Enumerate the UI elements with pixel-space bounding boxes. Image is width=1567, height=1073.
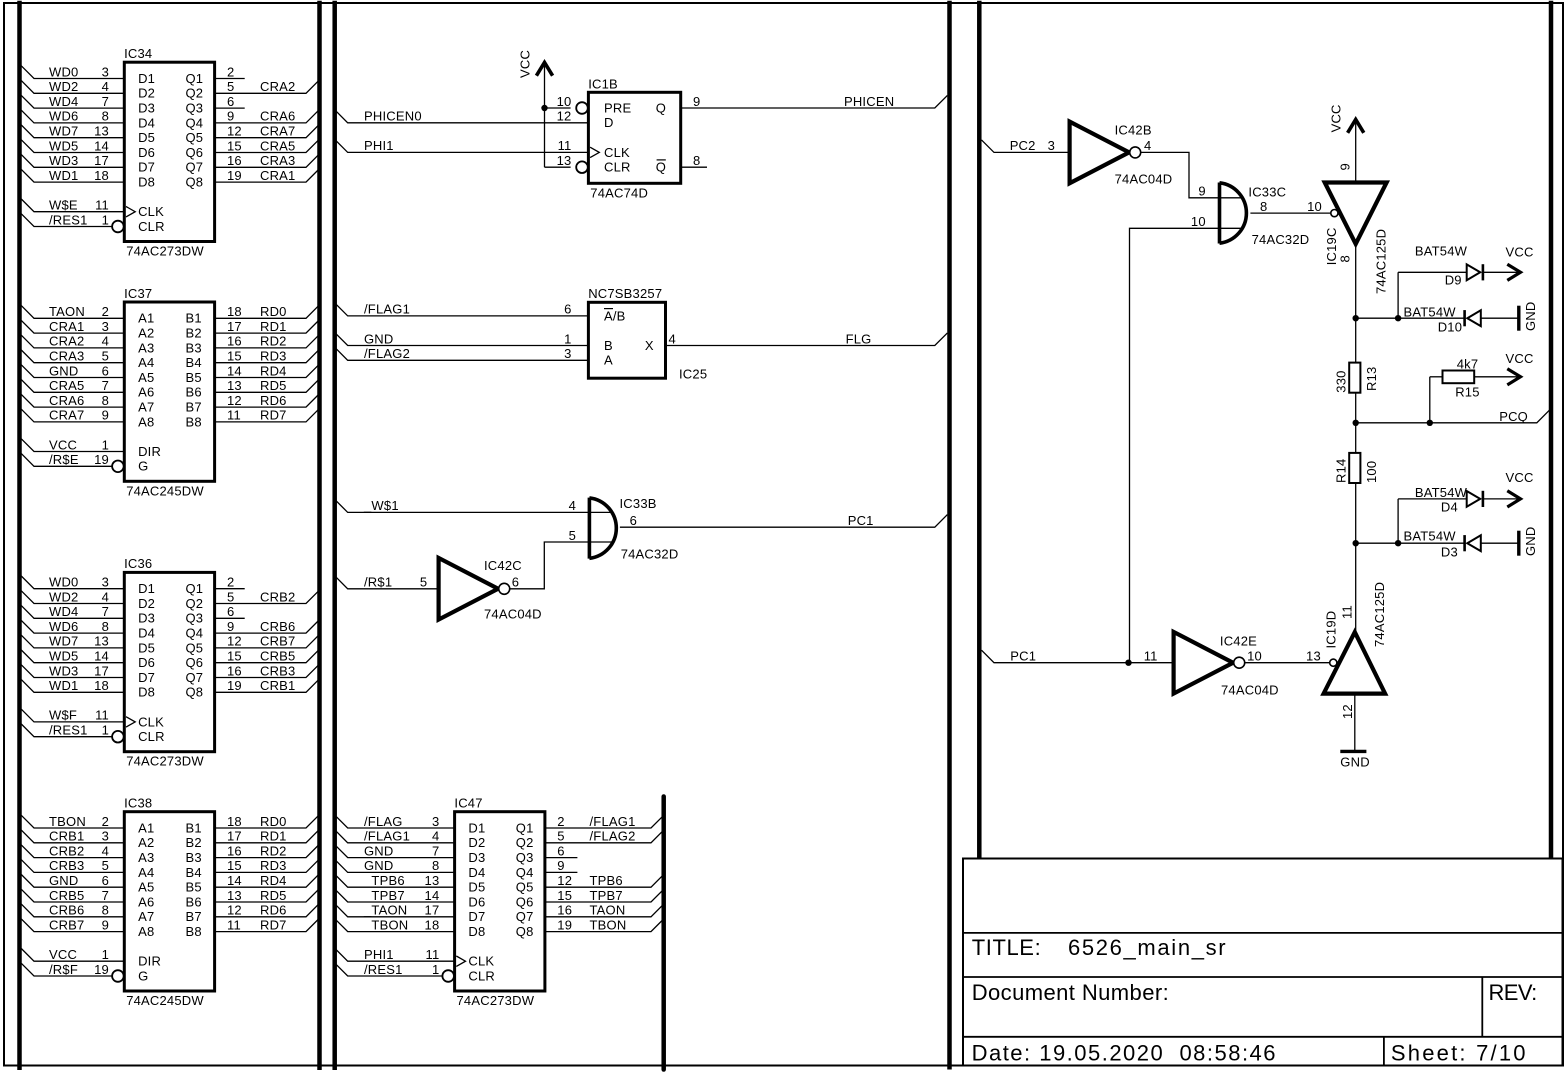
wire R13 to _PCQ node bbox=[1355, 393, 1357, 453]
svg-text:A3: A3 bbox=[138, 850, 154, 865]
wire IC34 pin 19 to CRA1 bbox=[215, 170, 319, 183]
wire IC37 pin 18 to RD0 bbox=[215, 306, 319, 319]
svg-text:VCC: VCC bbox=[49, 947, 77, 962]
svg-text:16: 16 bbox=[227, 153, 242, 168]
svg-text:11: 11 bbox=[1144, 649, 1158, 664]
svg-text:4: 4 bbox=[1144, 138, 1151, 153]
inversion bubble G (IC38) bbox=[112, 970, 124, 982]
svg-text:WD6: WD6 bbox=[49, 619, 79, 634]
svg-text:B8: B8 bbox=[186, 414, 202, 429]
svg-text:D4: D4 bbox=[138, 626, 155, 641]
svg-text:/RES1: /RES1 bbox=[364, 962, 403, 977]
svg-text:7: 7 bbox=[102, 604, 109, 619]
svg-text:B4: B4 bbox=[186, 355, 202, 370]
resistor R14 body bbox=[1349, 453, 1360, 483]
svg-text:17: 17 bbox=[94, 663, 109, 678]
svg-text:Q3: Q3 bbox=[516, 850, 534, 865]
junction IC19C/D10 node bbox=[1353, 315, 1359, 321]
svg-text:CRA5: CRA5 bbox=[49, 378, 84, 393]
svg-text:CRB5: CRB5 bbox=[260, 649, 295, 664]
stub IC34 pin 6 (n.c.) bbox=[215, 107, 245, 109]
svg-text:4k7: 4k7 bbox=[1457, 356, 1479, 371]
inversion bubble enable (IC19C) bbox=[1331, 210, 1338, 217]
svg-text:B7: B7 bbox=[186, 909, 202, 924]
svg-text:W$E: W$E bbox=[49, 198, 78, 213]
junction D4 branch bbox=[1395, 540, 1401, 546]
wire IC38 pin 15 to RD3 bbox=[215, 860, 319, 873]
svg-text:6: 6 bbox=[102, 363, 109, 378]
svg-text:B7: B7 bbox=[186, 400, 202, 415]
wire TBON to IC38 pin 2 bbox=[21, 815, 124, 828]
svg-text:14: 14 bbox=[94, 138, 109, 153]
svg-text:18: 18 bbox=[94, 678, 109, 693]
wire CRB3 to IC38 pin 5 bbox=[21, 860, 124, 873]
svg-text:D3: D3 bbox=[138, 101, 155, 116]
wire IC38 pin 17 to RD1 bbox=[215, 830, 319, 843]
wire IC38 pin 13 to RD5 bbox=[215, 889, 319, 902]
svg-text:B1: B1 bbox=[186, 311, 202, 326]
or-gate IC33B body (74AC32D) bbox=[589, 498, 616, 559]
wire IC36 pin 5 to CRB2 bbox=[215, 591, 319, 604]
svg-text:15: 15 bbox=[227, 349, 242, 364]
svg-text:8: 8 bbox=[102, 903, 109, 918]
svg-text:5: 5 bbox=[102, 858, 109, 873]
svg-text:PC2: PC2 bbox=[1010, 138, 1036, 153]
svg-text:8: 8 bbox=[693, 153, 700, 168]
svg-text:GND: GND bbox=[1523, 527, 1538, 557]
svg-text:NC7SB3257: NC7SB3257 bbox=[588, 286, 662, 301]
svg-text:11: 11 bbox=[95, 708, 109, 723]
svg-text:9: 9 bbox=[1198, 184, 1205, 199]
clock wedge (IC47) bbox=[456, 956, 465, 966]
svg-text:IC33B: IC33B bbox=[620, 496, 657, 511]
svg-text:B1: B1 bbox=[186, 820, 202, 835]
svg-text:Sheet: 7/10: Sheet: 7/10 bbox=[1391, 1041, 1528, 1066]
svg-text:Q2: Q2 bbox=[186, 596, 204, 611]
svg-text:Q2: Q2 bbox=[186, 86, 204, 101]
svg-text:6: 6 bbox=[564, 302, 571, 317]
svg-text:3: 3 bbox=[102, 575, 109, 590]
svg-text:74AC04D: 74AC04D bbox=[1221, 683, 1279, 698]
wire branch up to D4 bbox=[1397, 499, 1399, 543]
svg-text:D7: D7 bbox=[468, 909, 485, 924]
svg-text:IC1B: IC1B bbox=[588, 76, 618, 91]
svg-text:8: 8 bbox=[102, 619, 109, 634]
svg-text:4: 4 bbox=[102, 843, 109, 858]
svg-text:100: 100 bbox=[1364, 461, 1379, 483]
svg-text:IC34: IC34 bbox=[124, 46, 152, 61]
svg-text:11: 11 bbox=[425, 947, 439, 962]
svg-text:74AC74D: 74AC74D bbox=[590, 185, 648, 200]
svg-text:D8: D8 bbox=[468, 924, 485, 939]
svg-text:3: 3 bbox=[1048, 138, 1055, 153]
svg-text:8: 8 bbox=[432, 858, 439, 873]
wire branch up to D9 bbox=[1397, 272, 1399, 318]
svg-text:WD2: WD2 bbox=[49, 79, 79, 94]
inverter IC42C body (74AC04D) bbox=[439, 558, 499, 620]
wire WD2 to IC36 pin 4 bbox=[21, 591, 124, 604]
svg-text:17: 17 bbox=[425, 903, 440, 918]
clock wedge (IC34) bbox=[126, 207, 135, 217]
svg-text:D2: D2 bbox=[468, 835, 485, 850]
wire CRB7 to IC38 pin 9 bbox=[21, 919, 124, 932]
svg-text:WD5: WD5 bbox=[49, 138, 79, 153]
svg-text:_PCQ: _PCQ bbox=[1491, 409, 1528, 424]
bus CRA/RD/CRB outputs (left-mid vertical bus) bbox=[317, 1, 322, 1070]
svg-text:G: G bbox=[138, 459, 148, 474]
svg-text:B4: B4 bbox=[186, 865, 202, 880]
svg-text:74AC32D: 74AC32D bbox=[1252, 232, 1310, 247]
IC IC34 74AC273DW body bbox=[124, 62, 214, 241]
svg-text:X: X bbox=[645, 338, 654, 353]
svg-text:Q2: Q2 bbox=[516, 835, 534, 850]
svg-text:6: 6 bbox=[630, 513, 637, 528]
svg-text:4: 4 bbox=[102, 79, 109, 94]
wire W$F to IC36 pin 11 (CLK) bbox=[21, 709, 124, 722]
svg-text:RD7: RD7 bbox=[260, 408, 287, 423]
svg-text:B2: B2 bbox=[186, 835, 202, 850]
svg-text:74AC245DW: 74AC245DW bbox=[126, 993, 204, 1008]
svg-text:15: 15 bbox=[227, 138, 242, 153]
svg-text:11: 11 bbox=[227, 917, 241, 932]
svg-text:2: 2 bbox=[227, 575, 234, 590]
wire CRB1 to IC38 pin 3 bbox=[21, 830, 124, 843]
VCC power symbol arrow (R15) bbox=[1507, 369, 1520, 385]
inversion bubble CLR (IC34) bbox=[112, 221, 124, 233]
wire IC37 pin 14 to RD4 bbox=[215, 365, 319, 378]
svg-text:17: 17 bbox=[227, 319, 242, 334]
svg-text:12: 12 bbox=[227, 634, 242, 649]
wire CRB5 to IC38 pin 7 bbox=[21, 889, 124, 902]
svg-text:RD3: RD3 bbox=[260, 858, 287, 873]
svg-text:13: 13 bbox=[227, 888, 242, 903]
wire CRA2 to IC37 pin 4 bbox=[21, 335, 124, 348]
wire /RES1 to IC36 pin 1 (CLR) bbox=[21, 724, 112, 737]
svg-text:Q1: Q1 bbox=[186, 71, 204, 86]
svg-text:CLK: CLK bbox=[604, 145, 630, 160]
svg-text:9: 9 bbox=[227, 109, 234, 124]
svg-text:B3: B3 bbox=[186, 340, 202, 355]
svg-text:GND: GND bbox=[1523, 302, 1538, 332]
bus IC47 outputs (short vertical bus) bbox=[661, 797, 666, 1070]
svg-text:VCC: VCC bbox=[1506, 351, 1534, 366]
svg-text:Q1: Q1 bbox=[186, 581, 204, 596]
svg-text:WD1: WD1 bbox=[49, 678, 79, 693]
svg-text:IC42C: IC42C bbox=[484, 558, 522, 573]
svg-text:5: 5 bbox=[420, 575, 427, 590]
svg-text:15: 15 bbox=[227, 649, 242, 664]
svg-text:CLK: CLK bbox=[468, 954, 494, 969]
wire IC47 pin 5 to /FLAG2 bbox=[545, 830, 664, 843]
svg-text:6: 6 bbox=[227, 604, 234, 619]
bus right edge (vertical bus) bbox=[1549, 1, 1554, 859]
wire IC36 pin 15 to CRB5 bbox=[215, 650, 319, 663]
wire WD0 to IC34 pin 3 bbox=[21, 66, 124, 79]
svg-text:CRA7: CRA7 bbox=[260, 124, 295, 139]
svg-text:8: 8 bbox=[1260, 199, 1267, 214]
wire IC37 pin 13 to RD5 bbox=[215, 380, 319, 393]
wire CRB6 to IC38 pin 8 bbox=[21, 904, 124, 917]
wire WD7 to IC34 pin 13 bbox=[21, 125, 124, 138]
svg-text:5: 5 bbox=[102, 349, 109, 364]
svg-text:3: 3 bbox=[102, 829, 109, 844]
svg-text:Q7: Q7 bbox=[186, 160, 204, 175]
svg-text:BAT54W: BAT54W bbox=[1415, 244, 1468, 259]
svg-text:14: 14 bbox=[94, 649, 109, 664]
svg-text:74AC04D: 74AC04D bbox=[1115, 172, 1173, 187]
svg-text:WD5: WD5 bbox=[49, 649, 79, 664]
svg-text:IC38: IC38 bbox=[124, 796, 152, 811]
wire CRA3 to IC37 pin 5 bbox=[21, 350, 124, 363]
clock wedge (IC1B) bbox=[590, 147, 599, 157]
svg-text:A7: A7 bbox=[138, 400, 154, 415]
wire IC47 pin 12 to TPB6 bbox=[545, 875, 664, 888]
svg-text:10: 10 bbox=[1307, 199, 1322, 214]
svg-text:VCC: VCC bbox=[49, 437, 77, 452]
svg-text:13: 13 bbox=[227, 378, 242, 393]
svg-text:8: 8 bbox=[102, 393, 109, 408]
svg-text:Q5: Q5 bbox=[186, 640, 204, 655]
svg-text:CRB3: CRB3 bbox=[49, 858, 84, 873]
svg-text:Q7: Q7 bbox=[516, 909, 534, 924]
wire IC42C out to IC33B pin 5 bbox=[510, 542, 612, 589]
svg-text:CLR: CLR bbox=[604, 160, 631, 175]
svg-text:5: 5 bbox=[227, 79, 234, 94]
svg-text:3: 3 bbox=[102, 64, 109, 79]
wire VCC to CLR pin bbox=[545, 166, 571, 168]
resistor R15 body bbox=[1443, 371, 1475, 384]
svg-text:16: 16 bbox=[227, 334, 242, 349]
wire IC33B out to _PC1 bbox=[620, 515, 948, 528]
svg-text:RD1: RD1 bbox=[260, 829, 287, 844]
svg-text:9: 9 bbox=[102, 408, 109, 423]
wire IC38 pin 14 to RD4 bbox=[215, 875, 319, 888]
wire IC36 pin 16 to CRB3 bbox=[215, 665, 319, 678]
svg-text:1: 1 bbox=[102, 212, 109, 227]
wire IC37 pin 11 to RD7 bbox=[215, 409, 319, 422]
svg-text:CRB5: CRB5 bbox=[49, 888, 84, 903]
svg-text:VCC: VCC bbox=[1506, 245, 1534, 260]
wire CRA1 to IC37 pin 3 bbox=[21, 320, 124, 333]
svg-text:5: 5 bbox=[569, 528, 576, 543]
svg-text:CLR: CLR bbox=[138, 729, 165, 744]
wire IC38 pin 18 to RD0 bbox=[215, 815, 319, 828]
stub IC47 pin 6 (n.c.) bbox=[545, 857, 578, 859]
svg-text:G: G bbox=[138, 968, 148, 983]
svg-text:D4: D4 bbox=[1441, 500, 1458, 515]
svg-text:Q6: Q6 bbox=[186, 145, 204, 160]
svg-text:CLK: CLK bbox=[138, 714, 164, 729]
svg-text:WD7: WD7 bbox=[49, 124, 79, 139]
svg-text:IC37: IC37 bbox=[124, 286, 152, 301]
svg-text:VCC: VCC bbox=[518, 50, 533, 78]
svg-text:13: 13 bbox=[94, 124, 109, 139]
svg-text:IC19D: IC19D bbox=[1324, 611, 1339, 649]
title block row divider 3 bbox=[963, 1036, 1563, 1038]
svg-text:D8: D8 bbox=[138, 175, 155, 190]
junction PC1/IC33C branch bbox=[1125, 660, 1131, 666]
wire IC47 pin 16 to TAON bbox=[545, 904, 664, 917]
svg-text:74AC125D: 74AC125D bbox=[1372, 582, 1387, 647]
svg-text:CRB1: CRB1 bbox=[260, 678, 295, 693]
svg-text:9: 9 bbox=[227, 619, 234, 634]
svg-text:RD2: RD2 bbox=[260, 843, 287, 858]
svg-text:/R$E: /R$E bbox=[49, 452, 79, 467]
svg-text:9: 9 bbox=[693, 94, 700, 109]
svg-text:74AC125D: 74AC125D bbox=[1373, 229, 1388, 294]
svg-text:D5: D5 bbox=[468, 880, 485, 895]
svg-text:3: 3 bbox=[564, 346, 571, 361]
svg-text:PC1: PC1 bbox=[1010, 649, 1036, 664]
svg-text:_TBON: _TBON bbox=[363, 917, 408, 932]
title block outline bbox=[963, 859, 1563, 1066]
svg-text:D4: D4 bbox=[138, 115, 155, 130]
wire IC34 pin 16 to CRA3 bbox=[215, 155, 319, 168]
svg-text:/RES1: /RES1 bbox=[49, 212, 88, 227]
svg-text:Q1: Q1 bbox=[516, 820, 534, 835]
svg-text:PHI1: PHI1 bbox=[364, 138, 394, 153]
svg-text:CRA6: CRA6 bbox=[260, 109, 295, 124]
svg-text:D3: D3 bbox=[468, 850, 485, 865]
svg-text:2: 2 bbox=[102, 304, 109, 319]
svg-text:WD2: WD2 bbox=[49, 589, 79, 604]
svg-text:D5: D5 bbox=[138, 640, 155, 655]
wire IC36 pin 19 to CRB1 bbox=[215, 680, 319, 693]
wire IC37 pin 17 to RD1 bbox=[215, 321, 319, 334]
svg-text:6: 6 bbox=[512, 575, 519, 590]
svg-text:CRB7: CRB7 bbox=[260, 634, 295, 649]
svg-text:16: 16 bbox=[227, 843, 242, 858]
wire VCC to IC37 pin 1 (DIR) bbox=[21, 439, 124, 452]
junction VCC/PRE bbox=[541, 105, 547, 111]
wire GND to IC37 pin 6 bbox=[21, 365, 124, 378]
svg-text:IC47: IC47 bbox=[454, 796, 482, 811]
svg-text:TITLE:: TITLE: bbox=[972, 935, 1042, 960]
IC IC38 74AC245DW body bbox=[124, 812, 214, 991]
overline on A (IC25) bbox=[604, 308, 613, 310]
diode D9 (BAT54W) bbox=[1467, 264, 1481, 280]
wire _W$1 to IC33B pin 4 bbox=[335, 500, 612, 513]
svg-text:Q3: Q3 bbox=[186, 101, 204, 116]
wire D3 to GND bbox=[1481, 542, 1519, 544]
svg-text:A5: A5 bbox=[138, 370, 154, 385]
svg-text:D8: D8 bbox=[138, 685, 155, 700]
wire D4 to VCC bbox=[1483, 498, 1519, 500]
svg-text:_TPB7: _TPB7 bbox=[363, 888, 405, 903]
wire GND to IC47 pin 7 bbox=[335, 845, 455, 858]
wire IC1B Q to PHICEN bbox=[681, 95, 948, 108]
svg-text:IC42E: IC42E bbox=[1220, 634, 1257, 649]
svg-text:D3: D3 bbox=[1441, 545, 1458, 560]
svg-text:18: 18 bbox=[227, 814, 242, 829]
wire IC38 pin 12 to RD6 bbox=[215, 904, 319, 917]
title block row divider 1 bbox=[963, 932, 1563, 934]
svg-text:14: 14 bbox=[425, 888, 440, 903]
svg-text:RD6: RD6 bbox=[260, 903, 287, 918]
svg-text:A3: A3 bbox=[138, 340, 154, 355]
svg-text:CRA3: CRA3 bbox=[49, 349, 84, 364]
wire IC34 pin 12 to CRA7 bbox=[215, 125, 319, 138]
svg-text:D6: D6 bbox=[138, 145, 155, 160]
wire CRB2 to IC38 pin 4 bbox=[21, 845, 124, 858]
svg-text:R14: R14 bbox=[1333, 459, 1348, 483]
IC IC37 74AC245DW body bbox=[124, 302, 214, 481]
svg-text:B3: B3 bbox=[186, 850, 202, 865]
svg-text:FLG: FLG bbox=[846, 331, 872, 346]
svg-text:CRB6: CRB6 bbox=[49, 903, 84, 918]
svg-text:/RES1: /RES1 bbox=[49, 723, 88, 738]
svg-text:CRB2: CRB2 bbox=[49, 843, 84, 858]
svg-text:RD1: RD1 bbox=[260, 319, 287, 334]
svg-text:19: 19 bbox=[94, 962, 109, 977]
wire _TPB6 to IC47 pin 13 bbox=[335, 875, 455, 888]
svg-text:/FLAG1: /FLAG1 bbox=[364, 302, 410, 317]
title block REV divider bbox=[1481, 977, 1483, 1037]
svg-text:WD0: WD0 bbox=[49, 64, 79, 79]
svg-text:TPB7: TPB7 bbox=[590, 888, 623, 903]
svg-text:REV:: REV: bbox=[1489, 980, 1537, 1005]
clock wedge (IC36) bbox=[126, 717, 135, 727]
svg-text:1: 1 bbox=[432, 962, 439, 977]
wire R14 down to D4/D3 node bbox=[1355, 483, 1357, 543]
svg-text:6526_main_sr: 6526_main_sr bbox=[1068, 935, 1227, 960]
svg-text:18: 18 bbox=[94, 168, 109, 183]
wire GND to IC38 pin 6 bbox=[21, 875, 124, 888]
svg-text:CRA3: CRA3 bbox=[260, 153, 295, 168]
svg-text:D6: D6 bbox=[138, 655, 155, 670]
junction R15 branch bbox=[1427, 420, 1433, 426]
diode D4 (BAT54W) bbox=[1467, 491, 1481, 507]
svg-text:WD6: WD6 bbox=[49, 109, 79, 124]
wire PHICEN0 to IC1B D bbox=[335, 110, 588, 123]
GND power symbol (IC19D) bbox=[1340, 750, 1366, 753]
wire WD5 to IC36 pin 14 bbox=[21, 650, 124, 663]
svg-text:A7: A7 bbox=[138, 909, 154, 924]
svg-text:7: 7 bbox=[102, 378, 109, 393]
wire IC37 pin 15 to RD3 bbox=[215, 350, 319, 363]
svg-text:A/B: A/B bbox=[604, 308, 626, 323]
svg-text:74AC32D: 74AC32D bbox=[621, 547, 679, 562]
svg-text:WD4: WD4 bbox=[49, 94, 79, 109]
svg-text:DIR: DIR bbox=[138, 954, 161, 969]
svg-text:Q5: Q5 bbox=[186, 130, 204, 145]
svg-text:4: 4 bbox=[669, 331, 676, 346]
wire W$E to IC34 pin 11 (CLK) bbox=[21, 199, 124, 212]
svg-text:A8: A8 bbox=[138, 924, 154, 939]
svg-text:D2: D2 bbox=[138, 596, 155, 611]
svg-text:Q: Q bbox=[656, 100, 666, 115]
inversion bubble G (IC37) bbox=[112, 461, 124, 473]
svg-text:TPB6: TPB6 bbox=[590, 873, 623, 888]
svg-text:19: 19 bbox=[94, 452, 109, 467]
svg-text:GND: GND bbox=[49, 873, 79, 888]
junction _PCQ rail bbox=[1353, 420, 1359, 426]
svg-text:A2: A2 bbox=[138, 835, 154, 850]
svg-text:17: 17 bbox=[94, 153, 109, 168]
svg-text:WD3: WD3 bbox=[49, 153, 79, 168]
svg-text:CRA2: CRA2 bbox=[49, 334, 84, 349]
svg-text:PHICEN: PHICEN bbox=[844, 94, 894, 109]
svg-text:13: 13 bbox=[1306, 649, 1321, 664]
wire IC34 pin 9 to CRA6 bbox=[215, 110, 319, 123]
svg-text:D2: D2 bbox=[138, 86, 155, 101]
wire D10 to GND bbox=[1481, 317, 1519, 319]
wire PHI1 to IC1B CLK bbox=[335, 140, 588, 153]
wire to D9 anode bbox=[1398, 271, 1467, 273]
wire IC34 pin 5 to CRA2 bbox=[215, 81, 319, 94]
inverter IC42E body (74AC04D) bbox=[1174, 632, 1234, 694]
svg-text:9: 9 bbox=[557, 858, 564, 873]
